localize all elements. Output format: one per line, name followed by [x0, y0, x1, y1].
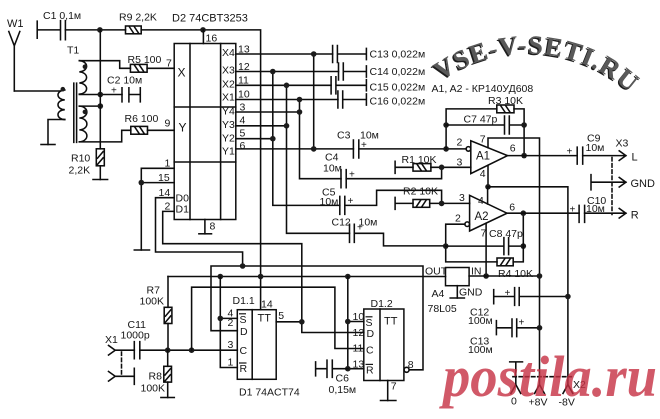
svg-text:3: 3 — [228, 339, 234, 351]
wire D2 pin 13 row — [236, 53, 333, 55]
svg-text:5: 5 — [240, 128, 246, 140]
node A1 output feedback — [521, 153, 527, 159]
wire R4 right up to output — [513, 213, 523, 262]
node 5 — [270, 136, 276, 142]
node 10 — [297, 97, 303, 103]
wire 5V logic rail — [168, 276, 446, 278]
node D1.2 SR 5V — [345, 274, 351, 280]
wire D2 pin 15 — [141, 182, 174, 184]
wire C1 to R9 (+5V rail top) — [65, 29, 125, 31]
connector X1 upper pin arrow — [109, 345, 116, 355]
node D1.2 S — [345, 319, 351, 325]
capacitor C14 — [339, 63, 367, 80]
node pin16 — [200, 27, 206, 33]
capacitor C12 100u — [494, 288, 568, 306]
svg-text:13: 13 — [238, 44, 250, 56]
svg-text:X4: X4 — [222, 47, 235, 59]
svg-text:1: 1 — [165, 158, 171, 170]
svg-text:78L05: 78L05 — [428, 303, 457, 315]
svg-text:10: 10 — [353, 311, 365, 323]
flip-flop D1.2 body — [364, 309, 404, 381]
wire secondary center tap lower — [79, 105, 100, 107]
svg-text:4: 4 — [480, 168, 486, 180]
svg-text:10м: 10м — [323, 163, 342, 175]
svg-text:X1: X1 — [222, 92, 235, 104]
svg-text:+: + — [505, 288, 511, 299]
node 12 — [270, 69, 276, 75]
svg-text:16: 16 — [206, 33, 218, 45]
node IN +8V — [537, 273, 543, 279]
wire D2 pin 5 row — [236, 138, 273, 140]
bus X2-Y3 down to C12 — [287, 85, 350, 233]
wire C11 row to D1.1 C — [115, 349, 237, 351]
svg-text:2: 2 — [228, 317, 234, 329]
svg-text:C1 0,1м: C1 0,1м — [43, 10, 81, 22]
svg-text:Y2: Y2 — [222, 132, 235, 144]
node 6 — [311, 146, 317, 152]
wire D2 pin 11 row — [236, 84, 331, 86]
ground T1 primary — [41, 144, 55, 146]
resistor R4 — [497, 258, 513, 266]
node C12 -8V — [565, 294, 571, 300]
svg-text:TT: TT — [384, 316, 398, 328]
svg-text:9: 9 — [165, 118, 171, 130]
svg-text:GND: GND — [631, 178, 656, 190]
svg-text:R5 100: R5 100 — [128, 54, 162, 66]
node R2/C5/pin3 A2 — [439, 201, 445, 207]
wire center bus C1-node to R10 — [99, 30, 101, 149]
svg-text:C15 0,022м: C15 0,022м — [370, 82, 426, 94]
capacitor C9 — [577, 147, 583, 164]
bus X3-Y2 down to C5 — [273, 72, 340, 206]
wire D2 pin 4 row — [236, 125, 287, 127]
wire A1 output row — [508, 155, 578, 157]
T1 secondary lower phase dot — [83, 110, 88, 115]
wire D1.1 pin5 to D2 pin2 and D1.2 D — [276, 322, 364, 333]
svg-text:6: 6 — [240, 140, 246, 152]
node D1.1 S — [218, 316, 224, 322]
svg-text:R: R — [366, 365, 374, 377]
ground R10 — [93, 179, 108, 181]
wire D2 pin 3 row — [236, 111, 300, 113]
resistor R8 — [164, 350, 172, 397]
svg-text:T1: T1 — [67, 45, 79, 57]
svg-text:2: 2 — [455, 213, 461, 225]
ground A4 — [450, 297, 464, 299]
capacitor C13 — [333, 46, 367, 63]
wire D1.2 S R tie — [348, 277, 364, 369]
svg-text:C14 0,022м: C14 0,022м — [370, 66, 426, 78]
svg-text:14: 14 — [159, 187, 171, 199]
wire C4 to R1 node — [346, 167, 441, 178]
wire A4 GND pin — [456, 286, 458, 298]
connector X2 pin -8V arrow — [563, 385, 573, 394]
connector X3 dashed outline — [611, 158, 613, 215]
node D1.2 R C6 — [345, 366, 351, 372]
svg-text:C8 47p: C8 47p — [489, 228, 523, 240]
resistor R5 — [130, 64, 147, 72]
bus X1-Y4 down to C4 — [300, 100, 342, 179]
resistor R7 — [164, 277, 172, 351]
resistor R6 — [131, 126, 148, 134]
svg-text:3: 3 — [457, 157, 463, 169]
svg-text:W1: W1 — [7, 18, 24, 30]
ground pins 1-15 — [134, 249, 149, 251]
wire D2 pin 14 D0 select — [156, 198, 243, 266]
svg-text:R2 10K: R2 10K — [403, 186, 438, 198]
svg-text:10м: 10м — [320, 196, 339, 208]
svg-text:2: 2 — [457, 137, 463, 149]
wire R3 right down — [514, 109, 524, 156]
svg-text:R1 10K: R1 10K — [402, 154, 437, 166]
svg-text:X3: X3 — [616, 138, 629, 150]
svg-text:2: 2 — [165, 201, 171, 213]
svg-text:D: D — [240, 326, 248, 338]
connector X1 dashed link — [121, 352, 123, 375]
svg-text:+: + — [348, 196, 354, 207]
node C13 +8V — [537, 325, 543, 331]
wire secondary top to R5 — [79, 61, 130, 69]
svg-text:+: + — [357, 223, 363, 234]
svg-text:10м: 10м — [586, 142, 605, 154]
svg-text:Y3: Y3 — [222, 119, 235, 131]
node C7 right — [521, 122, 527, 128]
wire R10 to ground — [99, 166, 101, 180]
wire antenna to T1 primary — [14, 90, 60, 92]
svg-text:X3: X3 — [222, 65, 235, 77]
svg-text:D1.2: D1.2 — [371, 298, 393, 310]
svg-text:X1: X1 — [105, 334, 118, 346]
wire R9 to corner, down to 5V logic rail — [141, 30, 260, 310]
node pins 1-15 — [139, 180, 145, 186]
wire A2 pin 2 feedback left — [446, 224, 497, 262]
node C7 left — [443, 122, 449, 128]
connector X3 GND pin — [591, 175, 626, 190]
T1 core — [74, 83, 77, 142]
wire pin4 node to -8V rail — [488, 187, 568, 385]
ground D2 pin 8 — [199, 233, 212, 235]
node C1/R9/T1 — [97, 27, 103, 33]
svg-text:100K: 100K — [140, 296, 165, 308]
svg-text:TT: TT — [258, 313, 272, 325]
capacitor C13 100u — [496, 319, 539, 337]
node C11/R7/R8 — [165, 347, 171, 353]
wire net Q2bar: D1.2 pin8 to D1.1 D and D2 pin14 — [211, 266, 423, 370]
svg-text:C: C — [366, 345, 374, 357]
node A1 pin2 feedback — [443, 146, 449, 152]
T1 secondary winding lower — [79, 106, 87, 142]
svg-text:D1: D1 — [176, 204, 190, 216]
svg-text:10м: 10м — [586, 203, 605, 215]
wire A4 IN row — [469, 275, 540, 277]
svg-text:R9 2,2K: R9 2,2K — [119, 12, 157, 24]
svg-text:4: 4 — [478, 195, 484, 207]
svg-text:12: 12 — [238, 61, 250, 73]
capacitor C6 — [316, 360, 348, 377]
svg-text:7: 7 — [166, 58, 172, 70]
capacitor C15 — [331, 77, 366, 94]
resistor R9 — [126, 26, 142, 34]
node 13 — [311, 51, 317, 57]
svg-text:3: 3 — [240, 101, 246, 113]
svg-text:C12: C12 — [332, 217, 351, 229]
node A2 output feedback — [521, 210, 527, 216]
svg-text:C6: C6 — [336, 373, 350, 385]
node C8 right — [521, 243, 527, 249]
capacitor C7 — [446, 116, 524, 134]
svg-text:+: + — [519, 318, 525, 329]
svg-text:15: 15 — [158, 172, 170, 184]
T1 secondary winding upper — [79, 61, 86, 94]
svg-text:R8: R8 — [149, 371, 163, 383]
svg-text:7: 7 — [481, 228, 487, 240]
capacitor C2 — [122, 88, 140, 102]
capacitor C1 — [37, 21, 65, 40]
svg-text:6: 6 — [510, 143, 516, 155]
capacitor C4 — [341, 170, 346, 188]
node A2 pin2/C8/C12 — [443, 243, 449, 249]
svg-text:100м: 100м — [468, 315, 493, 327]
wire A2 pin 7 down to IN row — [485, 223, 487, 276]
svg-text:+: + — [361, 140, 367, 151]
svg-text:D2 74CBT3253: D2 74CBT3253 — [172, 13, 248, 25]
svg-text:+: + — [570, 204, 576, 215]
wire primary bottom to ground — [48, 120, 65, 145]
node D1.1 pin14 5V — [258, 274, 264, 280]
node D0 tap — [240, 263, 246, 269]
node pin4 A1-A2 — [485, 184, 491, 190]
svg-text:C13 0,022м: C13 0,022м — [370, 49, 426, 61]
svg-text:R10: R10 — [71, 153, 90, 165]
wire A1 pin 7 to +8V rail — [488, 138, 540, 385]
svg-text:2,2K: 2,2K — [69, 165, 91, 177]
svg-text:R3 10K: R3 10K — [488, 95, 523, 107]
wire A2 pin 3 (from R2 node) joins triangle — [469, 202, 471, 204]
svg-text:X2: X2 — [222, 78, 235, 90]
svg-text:C3: C3 — [337, 130, 351, 142]
svg-text:8: 8 — [210, 221, 216, 233]
svg-text:5: 5 — [278, 310, 284, 322]
node tap upper — [98, 92, 104, 98]
svg-text:A4: A4 — [432, 288, 445, 300]
svg-text:R6 100: R6 100 — [125, 113, 159, 125]
op-amp A1 — [466, 141, 508, 174]
svg-text:Y1: Y1 — [222, 145, 235, 157]
svg-text:4: 4 — [240, 115, 246, 127]
svg-text:D1.1: D1.1 — [233, 295, 255, 307]
wire D2 pin 12 row — [236, 71, 339, 73]
overline D1.2 S — [366, 316, 373, 318]
antenna W1 — [9, 32, 20, 92]
svg-text:S: S — [240, 314, 247, 326]
svg-text:7: 7 — [391, 381, 397, 393]
svg-text:R: R — [240, 363, 248, 375]
voltage regulator A4 78L05 — [446, 268, 470, 286]
svg-text:A2: A2 — [475, 211, 489, 223]
svg-text:1000p: 1000p — [121, 330, 150, 342]
ground R8 — [161, 397, 174, 399]
svg-text:Y: Y — [179, 121, 187, 135]
wire D2 pin 8 — [204, 220, 206, 234]
svg-text:+: + — [349, 170, 355, 181]
ground X2 zero pin — [510, 362, 523, 385]
svg-text:8: 8 — [408, 359, 414, 371]
wire R5 to pin 7 — [147, 67, 174, 69]
resistor R2 with input bar — [395, 197, 470, 209]
connector X1 lower pin arrow — [109, 368, 135, 384]
resistor R10 — [96, 149, 104, 166]
overline D1.1 R — [239, 362, 247, 364]
svg-text:0,15м: 0,15м — [329, 384, 357, 396]
D1.2 pin 8 inverter circle — [404, 367, 409, 372]
svg-text:C7 47p: C7 47p — [464, 114, 498, 126]
wire secondary center tap upper — [79, 94, 122, 96]
svg-text:14: 14 — [261, 299, 273, 311]
IC D2 74CBT3253 body — [174, 44, 236, 220]
svg-text:3: 3 — [459, 192, 465, 204]
connector X2 pin 0 arrow — [511, 385, 521, 394]
wire C5 to R2 node — [345, 190, 442, 205]
node 3 — [297, 109, 303, 115]
wire pin 16 of D2 — [202, 30, 204, 44]
capacitor C3 — [353, 140, 358, 158]
svg-text:12: 12 — [353, 327, 365, 339]
wire A2 output row — [507, 212, 579, 214]
svg-text:GND: GND — [459, 287, 483, 299]
wire D1.1 S R tie — [220, 277, 237, 368]
node tap lower — [98, 103, 104, 109]
flip-flop D1.1 body — [237, 310, 276, 380]
svg-text:D: D — [367, 328, 375, 340]
capacitor C8 — [446, 238, 524, 255]
wire A1 pin 4 down — [487, 165, 489, 186]
ground D1.2 pin7 — [381, 400, 396, 402]
svg-text:IN: IN — [471, 266, 482, 278]
wire C9 to X3 L pin — [583, 151, 626, 161]
wire R6 to pin 9 — [148, 129, 175, 131]
svg-text:A1, A2 - КР140УД608: A1, A2 - КР140УД608 — [432, 83, 534, 95]
T1 primary phase dot — [61, 87, 66, 92]
svg-text:11: 11 — [238, 74, 249, 86]
svg-text:7: 7 — [480, 133, 486, 145]
wire D2 pin 1 — [141, 168, 174, 250]
svg-text:OUT: OUT — [425, 266, 448, 278]
node C11/clock riser — [189, 347, 195, 353]
wire C12 to A2 pin2 node — [354, 233, 445, 246]
connector X2 dashed outline — [513, 376, 572, 378]
node 4 — [284, 123, 290, 129]
overline D1.1 S — [239, 313, 246, 315]
connector X2 pin +8V arrow — [535, 385, 545, 394]
svg-text:D1 74ACT74: D1 74ACT74 — [239, 387, 300, 399]
svg-text:100K: 100K — [141, 383, 166, 395]
wire clock riser to D1.2 C — [192, 287, 364, 350]
transformer T1 primary winding — [58, 90, 65, 120]
svg-text:13: 13 — [353, 359, 365, 371]
node 11 — [284, 83, 290, 89]
resistor R1 with input bar — [395, 161, 471, 173]
node R7 5V — [218, 274, 224, 280]
svg-text:X: X — [178, 66, 186, 80]
wire A1 feedback left vertical — [446, 109, 497, 149]
svg-text:11: 11 — [353, 343, 364, 355]
capacitor C5 — [340, 196, 345, 214]
svg-text:Y4: Y4 — [222, 105, 235, 117]
wire D2 pin 6 row to C3 — [236, 148, 354, 150]
svg-text:L: L — [632, 152, 638, 164]
svg-text:+: + — [567, 147, 573, 158]
node D1.1 pin5 — [299, 319, 305, 325]
svg-text:C16 0,022м: C16 0,022м — [370, 96, 426, 108]
node R1/C4/pin3 — [439, 165, 445, 171]
capacitor C16 — [338, 91, 367, 108]
svg-text:10: 10 — [238, 88, 250, 100]
op-amp A2 — [465, 195, 507, 231]
svg-text:1: 1 — [228, 357, 234, 369]
svg-text:postila.ru: postila.ru — [438, 344, 657, 409]
wire secondary bottom to R6 — [79, 130, 131, 142]
svg-text:R4 10K: R4 10K — [498, 268, 533, 280]
svg-text:+: + — [111, 86, 117, 97]
node A2 pin7 on IN row — [483, 273, 489, 279]
svg-text:C: C — [240, 345, 248, 357]
capacitor C10 — [579, 205, 585, 222]
wire D1.2 pin 7 — [387, 381, 389, 401]
svg-text:A1: A1 — [476, 151, 490, 163]
wire A2 pin 4 up to pin4 node — [487, 187, 489, 204]
overline D1.2 R — [366, 363, 374, 365]
resistor R3 — [497, 105, 514, 113]
wire C10 to X3 R pin — [585, 208, 626, 218]
svg-text:6: 6 — [509, 202, 515, 214]
bus X4-Y1 — [313, 54, 315, 149]
capacitor C11 — [134, 342, 140, 359]
wire C3 to A1 pin 2 — [359, 148, 467, 150]
wire D2 pin 10 row — [236, 99, 338, 101]
capacitor C12 10u — [350, 224, 355, 242]
T1 secondary upper phase dot — [83, 64, 88, 69]
wire D2 pin 2 D1 select — [163, 211, 302, 321]
svg-text:R: R — [631, 209, 639, 221]
